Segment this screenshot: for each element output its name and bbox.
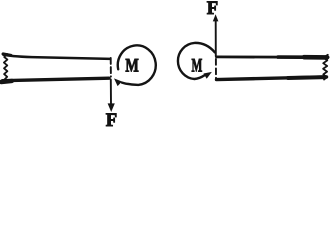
left beam bottom edge <box>3 78 110 81</box>
shear force arrowhead (right, up) <box>213 14 219 21</box>
right beam break (zigzag) end <box>323 55 328 80</box>
shear force arrow shaft (right) <box>215 21 217 57</box>
svg-text:M: M <box>125 55 138 76</box>
right beam bottom edge right-end thick run <box>288 75 326 80</box>
moment arc M (left, clockwise) <box>118 45 156 85</box>
left beam top edge left-end thick start <box>3 54 11 55</box>
section cut dashed line (left) <box>110 58 112 77</box>
left beam bottom edge left-end thick start <box>1 81 12 82</box>
right beam top edge <box>217 56 329 59</box>
shear force arrow shaft (left, down) <box>110 80 112 106</box>
svg-text:F: F <box>207 0 218 19</box>
right beam bottom edge <box>217 77 327 80</box>
right beam top edge far-right extra thickness <box>304 55 327 60</box>
section cut dashed line (right) <box>215 59 217 80</box>
moment arrowhead (left) <box>114 78 122 86</box>
svg-text:M: M <box>192 56 203 77</box>
moment arrowhead (right) <box>204 72 212 79</box>
left beam break (zigzag) end <box>4 54 8 80</box>
svg-text:F: F <box>106 110 117 131</box>
right beam top edge right-end thick run <box>278 55 328 59</box>
shear force arrowhead (left) <box>108 103 115 112</box>
moment arc M (right, counterclockwise) <box>178 43 215 79</box>
left beam top edge <box>3 55 110 59</box>
